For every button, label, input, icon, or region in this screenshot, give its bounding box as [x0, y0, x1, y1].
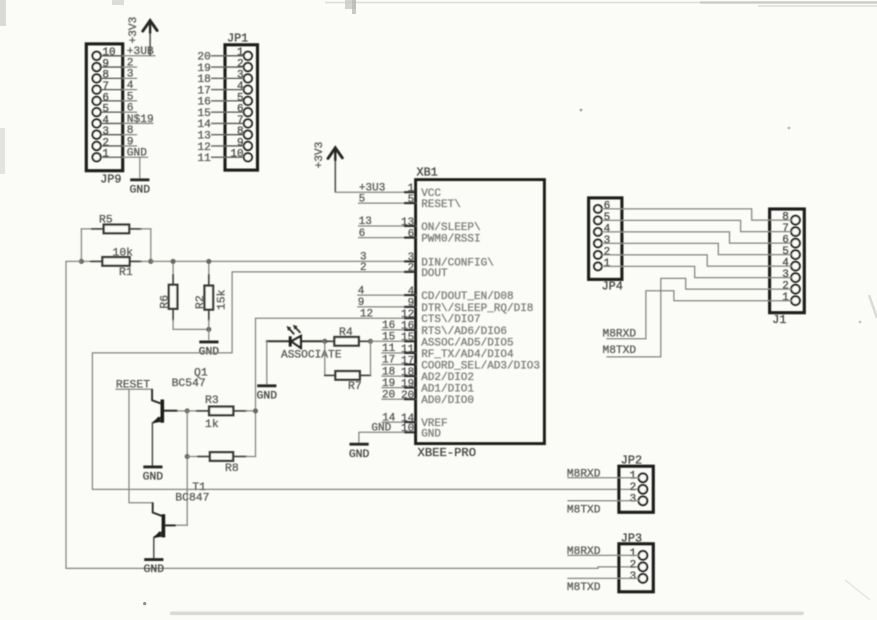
wire DOUT from XB1 pin 2 to JP2 pin 2: [92, 272, 638, 490]
svg-text:16: 16: [401, 321, 414, 333]
svg-text:13: 13: [401, 217, 414, 229]
resistor R2 15k: [195, 261, 229, 329]
svg-text:5: 5: [102, 104, 109, 116]
wire net M8RXD to J1 pin 1: [603, 291, 792, 341]
JP3 label: [621, 531, 642, 545]
J1 label: [772, 313, 786, 327]
wire T1 collector entry: [153, 502, 163, 516]
svg-text:17: 17: [401, 355, 414, 367]
svg-text:ASSOC/AD5/DIO5: ASSOC/AD5/DIO5: [421, 337, 513, 349]
svg-text:20: 20: [401, 390, 414, 402]
wire DIN net down-left to JP3 pin 2: [66, 261, 639, 568]
svg-text:R8: R8: [225, 463, 239, 475]
ground symbol at JP9: [130, 157, 151, 196]
svg-text:20: 20: [382, 389, 395, 401]
svg-text:ON/SLEEP\: ON/SLEEP\: [421, 222, 480, 234]
JP1 pin circles: [244, 52, 252, 162]
svg-text:GND: GND: [257, 390, 278, 402]
svg-text:DOUT: DOUT: [421, 268, 448, 280]
svg-text:+3V3: +3V3: [314, 142, 326, 169]
XB1 pin 12 CTS\/DIO7: [360, 308, 481, 326]
svg-text:XB1: XB1: [417, 166, 438, 180]
node R2 top junction: [206, 259, 211, 264]
wire JP1 net 12: [197, 142, 225, 154]
node R6 top junction: [171, 259, 176, 264]
svg-text:JP4: JP4: [602, 280, 623, 294]
JP1 internal pin lines: [225, 56, 244, 157]
svg-text:2: 2: [782, 281, 789, 293]
resistor R7: [325, 341, 371, 393]
XB1 pin 1 VCC: [404, 183, 441, 200]
power +3V3 at XB1: [314, 142, 342, 193]
svg-text:4: 4: [782, 258, 789, 270]
LED ASSOCIATE: [267, 325, 342, 362]
svg-text:10k: 10k: [113, 247, 134, 259]
svg-text:2: 2: [408, 263, 415, 275]
svg-text:18: 18: [382, 366, 395, 378]
wire JP9 net 2: [123, 57, 137, 69]
wire JP9 net 4: [123, 80, 137, 92]
svg-text:R7: R7: [348, 381, 362, 393]
svg-text:5: 5: [408, 194, 415, 206]
svg-text:4: 4: [408, 286, 415, 298]
svg-text:10: 10: [230, 149, 243, 161]
svg-text:19: 19: [401, 378, 414, 390]
svg-text:18: 18: [197, 74, 210, 86]
wire JP9 net 6: [123, 103, 137, 115]
svg-text:8: 8: [237, 126, 244, 138]
JP9 label: [100, 173, 121, 187]
connector J1 frame: [770, 209, 805, 313]
svg-text:+3V3: +3V3: [128, 17, 140, 44]
wire JP9 net N$19: [123, 114, 154, 126]
svg-text:1: 1: [782, 292, 789, 304]
svg-text:4: 4: [127, 80, 134, 92]
JP2 pin numbers: [630, 470, 637, 505]
svg-text:8: 8: [782, 212, 789, 224]
svg-text:JP1: JP1: [227, 32, 248, 46]
wire net M8TXD to J1 pin 2: [603, 278, 792, 357]
XB1 pin 14 VREF: [382, 412, 447, 430]
svg-text:12: 12: [197, 142, 210, 154]
wire base node down to R8 and T1 base: [186, 411, 188, 525]
svg-text:15: 15: [197, 108, 210, 120]
JP1 pin numbers 1..10: [230, 47, 244, 160]
wire JP1 net 17: [197, 85, 225, 97]
wire JP4 pin 6 to J1 pin 8: [602, 209, 792, 220]
svg-text:2: 2: [102, 137, 109, 149]
connector JP3 frame: [619, 544, 653, 592]
wire JP2 pin1 net M8RXD: [567, 468, 639, 480]
XB1 pin 10 GND: [371, 423, 441, 441]
svg-text:RESET\: RESET\: [421, 199, 461, 211]
svg-text:19: 19: [197, 63, 210, 75]
wire JP1 net 18: [197, 74, 225, 86]
wire R5 left riser: [80, 229, 82, 262]
svg-text:R4: R4: [339, 327, 353, 339]
svg-text:R2: R2: [195, 295, 207, 309]
svg-text:1: 1: [237, 47, 244, 59]
svg-text:COORD_SEL/AD3/DIO3: COORD_SEL/AD3/DIO3: [421, 361, 540, 373]
JP9 pin circles: [92, 52, 100, 162]
wire JP9 net 3: [123, 69, 137, 81]
wire T1 emitter to ground: [153, 538, 155, 559]
node R2 bottom junction: [206, 327, 211, 332]
XB1 pin 11 RF_TX/AD4/DIO4: [382, 343, 514, 361]
wire JP4 pin 5 to J1 pin 7: [602, 220, 792, 231]
JP4 pin circles: [594, 205, 602, 270]
svg-text:M8RXD: M8RXD: [567, 468, 601, 480]
svg-text:3: 3: [782, 269, 789, 281]
XB1 pin 13 ON/SLEEP\: [359, 216, 481, 234]
svg-text:N$19: N$19: [127, 114, 154, 126]
wire JP1 net 19: [197, 63, 225, 75]
svg-text:15k: 15k: [217, 289, 229, 310]
svg-text:4: 4: [604, 223, 611, 235]
node R4 right junction: [368, 339, 373, 344]
svg-text:17: 17: [382, 355, 395, 367]
ground symbol at Q1: [143, 467, 164, 484]
wire JP9 net 8: [123, 125, 137, 137]
svg-text:BC847: BC847: [175, 492, 209, 504]
JP3 pin circles: [639, 551, 648, 583]
svg-text:4: 4: [237, 81, 244, 93]
wire JP9 net 9: [123, 136, 137, 148]
svg-text:ASSOCIATE: ASSOCIATE: [281, 349, 342, 361]
XB1 pin 9 DTR\/SLEEP_RQ/DI8: [358, 297, 534, 315]
svg-text:GND: GND: [144, 564, 165, 576]
XB1 pin 3 DIN/CONFIG\: [360, 252, 494, 270]
transistor Q1 BC547: [152, 368, 208, 424]
svg-text:R5: R5: [99, 215, 113, 227]
wire R4 node to XB1 pin 15: [371, 340, 404, 342]
svg-text:5: 5: [359, 193, 366, 205]
svg-text:CD/DOUT_EN/D08: CD/DOUT_EN/D08: [421, 291, 513, 303]
connector JP9 frame: [86, 44, 122, 171]
svg-text:19: 19: [382, 378, 395, 390]
svg-text:20: 20: [197, 52, 211, 64]
wire JP4 pin 4 to J1 pin 6: [602, 232, 792, 243]
svg-text:14: 14: [197, 119, 211, 131]
JP9 internal pin lines: [101, 56, 123, 157]
svg-text:M8TXD: M8TXD: [567, 582, 601, 594]
svg-text:3: 3: [604, 235, 611, 247]
wire JP1 net 14: [197, 119, 225, 131]
power +3V3 at JP9: [128, 17, 157, 56]
svg-text:DTR\/SLEEP_RQ/DI8: DTR\/SLEEP_RQ/DI8: [421, 303, 533, 315]
node DIN junction right: [148, 259, 153, 264]
resistor R6: [159, 261, 177, 329]
svg-text:5: 5: [782, 246, 789, 258]
svg-text:GND: GND: [421, 428, 441, 440]
svg-text:5: 5: [237, 92, 244, 104]
XB1 pin 15 ASSOC/AD5/DIO5: [382, 332, 514, 350]
svg-text:R1: R1: [119, 267, 133, 279]
wire R6 bottom to R2 bottom: [173, 328, 209, 330]
JP4 label: [602, 280, 623, 294]
svg-text:2: 2: [237, 58, 244, 70]
wire JP1 net 20: [197, 52, 225, 64]
XB1 pin 2 DOUT: [360, 262, 448, 280]
wire JP1 net 15: [197, 108, 225, 120]
svg-text:3: 3: [127, 69, 134, 81]
svg-text:1: 1: [102, 149, 109, 161]
svg-text:6: 6: [102, 92, 109, 104]
XB1 pin 18 AD2/DIO2: [382, 366, 474, 384]
ground symbol at LED: [257, 341, 278, 402]
svg-text:11: 11: [197, 153, 211, 165]
svg-text:R6: R6: [159, 295, 171, 309]
net label RESET: [116, 379, 152, 391]
wire CTS from XB1 pin 12 down to R3/R8: [256, 318, 404, 456]
svg-text:8: 8: [102, 70, 109, 82]
svg-text:9: 9: [127, 136, 134, 148]
svg-text:3: 3: [630, 493, 637, 505]
svg-text:10: 10: [401, 423, 414, 435]
svg-text:9: 9: [237, 137, 244, 149]
node Q1 base junction: [185, 408, 190, 413]
connector JP1 frame: [225, 45, 258, 170]
node R3 right junction: [253, 408, 258, 413]
svg-text:18: 18: [401, 367, 414, 379]
svg-text:10: 10: [102, 47, 115, 59]
svg-text:2: 2: [630, 560, 637, 572]
ground symbol below R2: [199, 329, 220, 358]
svg-text:JP3: JP3: [621, 531, 642, 545]
svg-text:9: 9: [358, 297, 365, 309]
svg-text:RF_TX/AD4/DIO4: RF_TX/AD4/DIO4: [421, 349, 514, 361]
svg-text:7: 7: [102, 81, 109, 93]
svg-text:4: 4: [358, 285, 365, 297]
svg-text:GND: GND: [143, 472, 164, 484]
svg-text:6: 6: [127, 103, 134, 115]
svg-text:1: 1: [630, 470, 637, 482]
svg-text:6: 6: [408, 228, 415, 240]
wire RESET to T1 collector: [129, 389, 153, 503]
svg-text:GND: GND: [130, 184, 151, 196]
XB1 pin 4 CD/DOUT_EN/D08: [358, 285, 514, 303]
svg-text:12: 12: [401, 309, 414, 321]
svg-text:AD0/DIO0: AD0/DIO0: [421, 395, 474, 407]
JP3 pin numbers: [630, 548, 637, 583]
svg-text:1k: 1k: [205, 419, 219, 431]
connector JP4 frame: [589, 198, 622, 280]
wire JP9 net GND: [123, 148, 148, 160]
svg-text:JP9: JP9: [100, 173, 121, 187]
svg-text:8: 8: [127, 125, 134, 137]
svg-text:3: 3: [630, 571, 637, 583]
net label +3U3 on pin1 wire: [359, 182, 385, 194]
wire Q1 base to R3: [164, 410, 187, 412]
IC XB1 XBEE-PRO box: [416, 180, 545, 444]
svg-text:6: 6: [359, 228, 366, 240]
wire JP9 net 5: [123, 91, 137, 103]
svg-text:6: 6: [604, 200, 611, 212]
svg-text:AD1/DIO1: AD1/DIO1: [421, 384, 474, 396]
svg-text:1: 1: [604, 258, 611, 270]
svg-text:XBEE-PRO: XBEE-PRO: [418, 446, 477, 460]
XB1 pin 16 RTS\/AD6/DIO6: [382, 320, 507, 338]
JP4 pin numbers 6..1: [604, 200, 611, 269]
svg-text:M8RXD: M8RXD: [567, 546, 601, 558]
wire JP4 pin 2 to J1 pin 4: [602, 255, 792, 266]
svg-text:13: 13: [359, 216, 372, 228]
wire R5 right riser: [150, 229, 152, 262]
svg-text:7: 7: [782, 223, 789, 235]
svg-text:11: 11: [401, 344, 415, 356]
svg-text:AD2/DIO2: AD2/DIO2: [421, 372, 474, 384]
svg-text:PWM0/RSSI: PWM0/RSSI: [421, 234, 480, 246]
svg-text:4: 4: [102, 115, 109, 127]
XB1 pin 19 AD1/DIO1: [382, 378, 474, 396]
connector JP2 frame: [619, 466, 653, 512]
svg-text:GND: GND: [349, 449, 370, 461]
resistor R8: [187, 452, 255, 475]
wire DIN row to XB1 pin 3: [151, 260, 404, 262]
ground symbol at T1: [144, 560, 165, 577]
svg-text:R3: R3: [205, 395, 219, 407]
XB1 refdes: [417, 166, 438, 180]
svg-text:+3U3: +3U3: [359, 182, 385, 194]
wire T1 base: [165, 524, 187, 526]
svg-text:13: 13: [197, 130, 210, 142]
svg-text:5: 5: [604, 212, 611, 224]
svg-text:15: 15: [401, 332, 414, 344]
svg-text:M8TXD: M8TXD: [603, 345, 637, 357]
JP9 pin numbers 10..1: [102, 47, 115, 160]
XB1 pin 5 RESET\: [359, 193, 461, 211]
svg-text:RTS\/AD6/DIO6: RTS\/AD6/DIO6: [421, 326, 507, 338]
node R8 left junction: [185, 454, 190, 459]
svg-text:3: 3: [102, 126, 109, 138]
resistor R5: [81, 215, 150, 234]
JP1 label: [227, 32, 248, 46]
svg-text:J1: J1: [772, 313, 786, 327]
wire JP9 net +3UB: [123, 46, 155, 58]
wire JP1 net 11: [197, 153, 225, 165]
J1 pin numbers 8..1: [782, 212, 789, 305]
XB1 pin 17 COORD_SEL/AD3/DIO3: [382, 355, 540, 373]
svg-text:JP2: JP2: [621, 453, 642, 467]
wire JP1 net 13: [197, 130, 225, 142]
wire JP3 pin3 net M8TXD: [567, 578, 639, 594]
XB1 pin 20 AD0/DIO0: [382, 389, 474, 407]
svg-text:GND: GND: [127, 148, 147, 160]
node R4 left junction: [322, 339, 327, 344]
svg-text:2: 2: [630, 482, 637, 494]
svg-text:6: 6: [782, 235, 789, 247]
svg-text:CTS\/DIO7: CTS\/DIO7: [421, 314, 480, 326]
XB1 pin 10 GND wire and ground: [349, 432, 404, 461]
wire JP3 pin1 net M8RXD: [567, 546, 639, 558]
svg-text:1: 1: [630, 548, 637, 560]
svg-text:7: 7: [237, 115, 244, 127]
transistor T1 BC847: [153, 482, 209, 538]
svg-text:5: 5: [127, 91, 134, 103]
svg-text:16: 16: [197, 97, 210, 109]
resistor R3 1k: [187, 395, 255, 431]
svg-text:11: 11: [382, 343, 396, 355]
wire +3V3 to XB1 pin 1: [335, 191, 403, 193]
wire JP4 pin 3 to J1 pin 5: [602, 243, 792, 254]
svg-text:BC547: BC547: [172, 378, 206, 390]
wire JP1 net 16: [197, 97, 225, 109]
JP2 label: [621, 453, 642, 467]
node DIN junction left: [79, 259, 84, 264]
svg-text:M8TXD: M8TXD: [567, 504, 601, 516]
resistor R4: [325, 327, 371, 345]
svg-text:6: 6: [237, 104, 244, 116]
wire JP2 pin3 net M8TXD: [567, 501, 639, 517]
wire Q1 collector from RESET: [152, 389, 161, 404]
svg-text:M8RXD: M8RXD: [603, 328, 637, 340]
wire JP4 pin 1 to J1 pin 3: [602, 266, 792, 277]
svg-text:3: 3: [237, 70, 244, 82]
svg-text:9: 9: [408, 298, 415, 310]
XB1 pin 6 PWM0/RSSI: [359, 228, 481, 246]
resistor R1 10k: [81, 247, 150, 278]
svg-text:9: 9: [102, 58, 109, 70]
svg-text:2: 2: [604, 246, 611, 258]
XBEE-PRO value label: [418, 446, 477, 460]
J1 pin circles: [791, 216, 800, 305]
svg-text:2: 2: [127, 57, 134, 69]
svg-text:16: 16: [382, 320, 395, 332]
wire Q1 emitter to ground: [151, 423, 153, 465]
JP2 pin circles: [639, 473, 648, 505]
svg-text:17: 17: [197, 85, 210, 97]
